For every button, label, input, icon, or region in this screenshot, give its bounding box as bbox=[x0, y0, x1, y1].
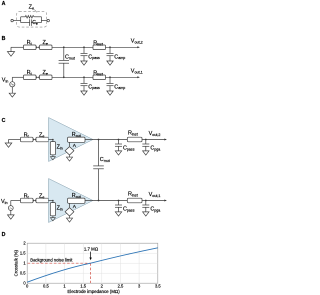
impedance Ze (top row) bbox=[36, 137, 49, 142]
capacitor Cpga (bottom row) bbox=[145, 201, 147, 206]
svg-text:Crosstalk (%): Crosstalk (%) bbox=[13, 249, 18, 276]
svg-text:0.5: 0.5 bbox=[20, 271, 26, 276]
svg-text:1.5: 1.5 bbox=[20, 251, 26, 256]
ground (Zin bottom) bbox=[52, 216, 54, 218]
resistor Re (zigzag) bbox=[25, 16, 34, 19]
wire into buffer bbox=[49, 139, 53, 141]
impedance Ze (bottom row) bbox=[40, 75, 53, 80]
plot frame bbox=[27, 243, 158, 283]
output arrow Vout2 bbox=[137, 46, 140, 48]
left terminal bbox=[11, 19, 13, 21]
pin ticks between R and Z (B top) bbox=[36, 46, 38, 48]
node (Camp top) bbox=[109, 46, 111, 48]
pin ticks between R and Z (C bottom) bbox=[33, 200, 35, 202]
wire bottom branch right bbox=[31, 22, 41, 24]
leader line from Ze label to box bbox=[34, 9, 37, 12]
svg-text:0.5: 0.5 bbox=[43, 283, 49, 288]
ground (channel 2 input) bbox=[8, 140, 10, 144]
svg-text:D: D bbox=[2, 232, 6, 238]
node (Cmut top) bbox=[98, 139, 100, 141]
wire top branch right bbox=[34, 16, 41, 18]
input impedance Zin (bottom buffer) bbox=[50, 203, 55, 216]
wire bbox=[106, 46, 140, 48]
output arrow Vout2 bbox=[164, 139, 167, 141]
ground (source bottom buffer) bbox=[69, 216, 71, 218]
capacitor Cpga (top row) bbox=[145, 140, 147, 145]
node (Cpga bottom) bbox=[145, 200, 147, 202]
node (Camp bottom) bbox=[109, 76, 111, 78]
ground (channel 2 input) bbox=[10, 47, 12, 51]
node (Cmut top) bbox=[63, 46, 65, 48]
svg-text:B: B bbox=[2, 36, 6, 42]
ground (Camp bottom) bbox=[107, 91, 113, 95]
svg-text:3.5: 3.5 bbox=[155, 283, 161, 288]
capacitor Cmut (between channels) bbox=[63, 47, 65, 60]
wire buffer output bbox=[85, 200, 166, 202]
1.7 MOhm dashed vertical line bbox=[90, 263, 92, 283]
op-amp buffer U2 (triangle) bbox=[49, 118, 94, 162]
wire bbox=[52, 76, 93, 78]
node (Cmut bottom) bbox=[63, 76, 65, 78]
capacitor Cpass (top row) bbox=[118, 140, 120, 145]
wire left terminal to node bbox=[13, 20, 20, 22]
wire bbox=[11, 200, 21, 202]
capacitor Camp (bottom row) bbox=[109, 77, 111, 83]
wire bbox=[33, 139, 36, 141]
pin ticks between R and Z (C top) bbox=[33, 139, 35, 141]
wire bbox=[36, 46, 40, 48]
pin ticks between R and Z (B bottom) bbox=[36, 76, 38, 78]
ground (Cpass top) bbox=[115, 151, 121, 155]
resistor Rt (top row) bbox=[24, 45, 37, 50]
capacitor Ce plates bbox=[29, 19, 31, 26]
capacitor Cpass (top row) bbox=[83, 47, 85, 53]
ground (Cpass bottom) bbox=[81, 91, 87, 95]
impedance Ze (top row) bbox=[40, 45, 53, 50]
svg-text:C: C bbox=[2, 118, 6, 124]
output arrow Vout1 bbox=[137, 76, 140, 78]
capacitor Camp (top row) bbox=[109, 47, 111, 53]
ground (Zin top) bbox=[52, 155, 54, 157]
node (Cmut bottom) bbox=[98, 200, 100, 202]
svg-text:Electrode impedance (MΩ): Electrode impedance (MΩ) bbox=[67, 289, 120, 294]
ground (source top buffer) bbox=[69, 155, 71, 157]
resistor Rinst (bottom row) bbox=[93, 75, 106, 80]
right terminal bbox=[47, 19, 49, 21]
resistor Rinst (bottom row) bbox=[127, 198, 142, 203]
node (Cpga top) bbox=[145, 139, 147, 141]
ground (Cpga top) bbox=[143, 151, 149, 155]
wire bbox=[11, 46, 24, 48]
resistor Rinst (top row) bbox=[93, 45, 106, 50]
wire bbox=[33, 200, 36, 202]
output arrow Vout1 bbox=[164, 200, 167, 202]
wire buffer output bbox=[85, 139, 166, 141]
svg-text:1.7 MΩ: 1.7 MΩ bbox=[84, 246, 99, 251]
output resistance Rout (bottom buffer) bbox=[68, 198, 85, 203]
resistor Rt (top row) bbox=[21, 137, 34, 142]
impedance Ze (bottom row) bbox=[36, 198, 49, 203]
svg-text:2.5: 2.5 bbox=[118, 283, 124, 288]
svg-text:1.5: 1.5 bbox=[80, 283, 86, 288]
capacitor Cpass (bottom row) bbox=[83, 77, 85, 83]
wire bbox=[36, 76, 40, 78]
node bar right bbox=[40, 17, 42, 23]
dashed box Ze (electrode impedance model) bbox=[17, 12, 47, 28]
capacitor Cpass (bottom row) bbox=[118, 201, 120, 206]
capacitor Cmut (between channels) bbox=[98, 140, 100, 166]
output resistance Rout (top buffer) bbox=[68, 137, 85, 142]
resistor Rt (bottom row) bbox=[21, 198, 34, 203]
node (Cpass top) bbox=[83, 46, 85, 48]
wire bbox=[106, 76, 140, 78]
ground (under Vin) bbox=[11, 87, 13, 93]
ground (Cpass bottom) bbox=[115, 212, 121, 216]
input impedance Zin (top buffer) bbox=[50, 142, 55, 155]
dependent source A (bottom buffer, diamond) bbox=[65, 208, 74, 216]
node (Cpass bottom) bbox=[118, 200, 120, 202]
node (Cpass top) bbox=[118, 139, 120, 141]
wire bbox=[9, 139, 21, 141]
svg-text:Background noise limit: Background noise limit bbox=[30, 258, 73, 263]
op-amp buffer U1 (triangle) bbox=[49, 179, 94, 223]
horizontal gridlines bbox=[27, 253, 158, 273]
crosstalk curve bbox=[27, 248, 158, 282]
vertical gridlines bbox=[46, 243, 139, 283]
node bar left bbox=[20, 17, 22, 23]
wire to right terminal bbox=[41, 20, 47, 22]
y tick labels bbox=[20, 241, 26, 286]
ground (Cpass top) bbox=[81, 61, 87, 65]
background noise limit dashed line bbox=[28, 262, 91, 264]
ground (under Vin) bbox=[10, 210, 12, 215]
svg-text:A: A bbox=[2, 1, 6, 7]
wire top branch left bbox=[21, 16, 26, 18]
resistor Rt (bottom row) bbox=[24, 75, 37, 80]
dependent source A (top buffer, diamond) bbox=[65, 147, 74, 155]
ground (Camp top) bbox=[107, 61, 113, 65]
wire into buffer bbox=[49, 200, 53, 202]
wire bottom branch left bbox=[21, 22, 30, 24]
x tick labels bbox=[26, 283, 161, 288]
wire bbox=[52, 46, 93, 48]
wire bbox=[12, 76, 23, 78]
ground (Cpga bottom) bbox=[143, 212, 149, 216]
node (Cpass bottom) bbox=[83, 76, 85, 78]
resistor Rinst (top row) bbox=[127, 137, 142, 142]
